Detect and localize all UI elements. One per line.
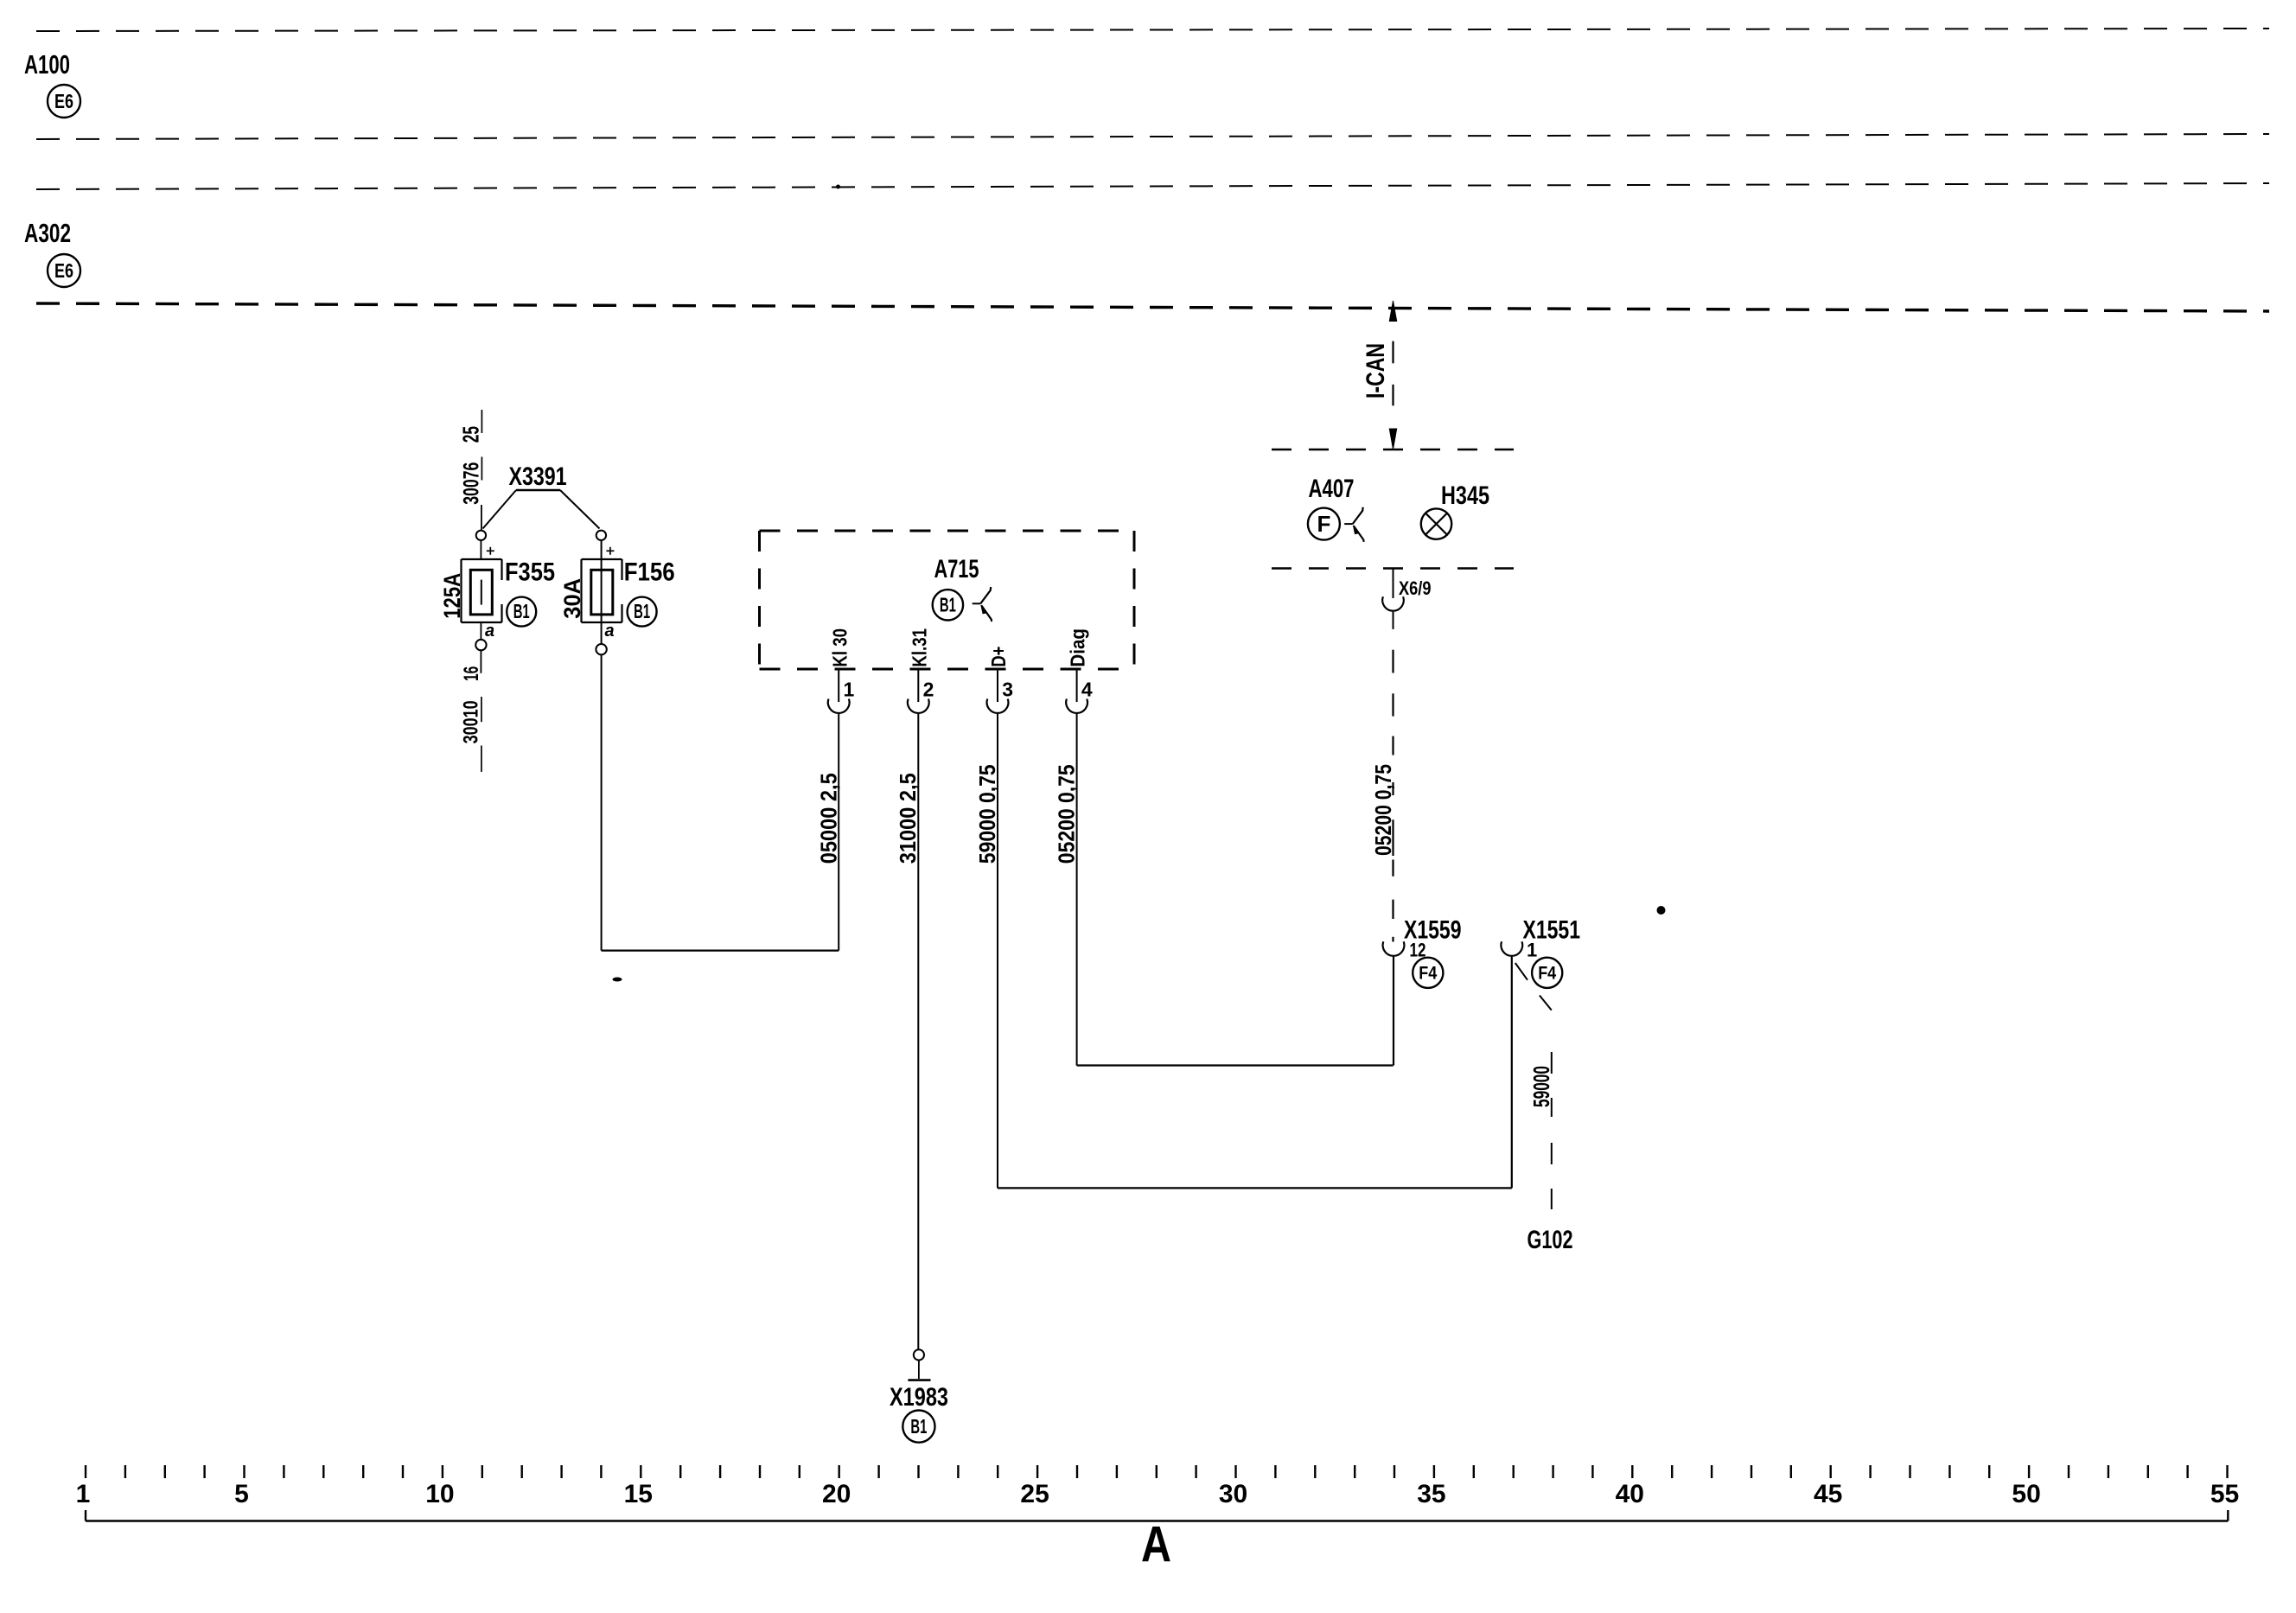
svg-text:31000 2,5: 31000 2,5 xyxy=(895,773,921,864)
svg-text:G102: G102 xyxy=(1527,1226,1573,1254)
wire pin3 D+ to X1551 xyxy=(998,1187,1512,1189)
A407 dashed box bottom xyxy=(1272,567,1514,570)
speck xyxy=(837,185,840,188)
wire 30010 xyxy=(480,650,482,673)
X1983 terminal circle xyxy=(914,1349,924,1360)
svg-text:X3391: X3391 xyxy=(509,462,567,491)
svg-text:H345: H345 xyxy=(1441,481,1489,510)
svg-text:X1983: X1983 xyxy=(890,1383,948,1412)
speck xyxy=(613,978,622,982)
A715 electronics symbol xyxy=(973,602,981,604)
svg-text:20: 20 xyxy=(822,1480,851,1508)
plus mark F156 xyxy=(606,550,614,551)
svg-text:1: 1 xyxy=(1527,940,1537,961)
svg-text:B1: B1 xyxy=(513,600,530,622)
svg-text:A100: A100 xyxy=(24,49,70,80)
svg-text:1: 1 xyxy=(76,1480,91,1508)
svg-text:25: 25 xyxy=(458,426,484,443)
svg-text:59000: 59000 xyxy=(1528,1066,1554,1107)
A407 location circle F xyxy=(1308,508,1340,540)
svg-text:05200 0,75: 05200 0,75 xyxy=(1370,764,1396,856)
svg-text:05200 0,75: 05200 0,75 xyxy=(1054,764,1080,864)
grid ruler ticks xyxy=(85,1465,86,1478)
svg-text:30A: 30A xyxy=(559,578,585,619)
control unit A715 dashed box xyxy=(760,530,1135,532)
svg-text:A715: A715 xyxy=(934,555,979,583)
svg-text:B1: B1 xyxy=(634,600,650,622)
svg-text:45: 45 xyxy=(1814,1480,1842,1508)
svg-text:A302: A302 xyxy=(24,218,71,248)
svg-text:A407: A407 xyxy=(1309,475,1355,503)
F156 location circle B1 xyxy=(628,597,657,627)
dashed wire 05200 X6/9 to X1559 xyxy=(1392,650,1394,673)
wire F355 to terminal circle xyxy=(480,622,482,640)
svg-text:15: 15 xyxy=(624,1480,653,1508)
wire X1559 down to pin4 run xyxy=(1393,956,1394,1066)
wire F156 to A715 pin1 xyxy=(602,949,839,951)
svg-text:16: 16 xyxy=(460,666,483,681)
F355 fuse body xyxy=(460,559,462,622)
A100 code circle E6 xyxy=(48,85,80,118)
svg-text:30076: 30076 xyxy=(460,462,484,505)
wire X3391 left to F355 xyxy=(480,540,482,559)
F355 location circle B1 xyxy=(507,597,536,627)
svg-text:30010: 30010 xyxy=(460,700,483,743)
svg-text:A: A xyxy=(1141,1517,1171,1573)
svg-text:1: 1 xyxy=(844,679,855,701)
svg-text:125A: 125A xyxy=(439,573,465,619)
dashed bus line 3 (A302 top) xyxy=(36,183,2269,189)
X1559 location circle F4 xyxy=(1413,958,1443,988)
svg-text:E6: E6 xyxy=(54,259,73,282)
svg-text:F156: F156 xyxy=(624,558,675,587)
svg-text:F: F xyxy=(1317,511,1330,537)
svg-text:F4: F4 xyxy=(1419,964,1437,984)
I-CAN bus arrow up xyxy=(1389,301,1396,322)
svg-text:35: 35 xyxy=(1417,1480,1445,1508)
svg-text:a: a xyxy=(605,622,615,641)
X1551 location circle F4 xyxy=(1532,958,1562,988)
svg-text:50: 50 xyxy=(2012,1480,2040,1508)
svg-text:25: 25 xyxy=(1020,1480,1049,1508)
A407 electronics symbol xyxy=(1344,523,1353,525)
svg-text:Kl.31: Kl.31 xyxy=(908,628,930,667)
svg-text:30: 30 xyxy=(1219,1480,1247,1508)
A407 dashed box top xyxy=(1272,449,1514,451)
svg-text:40: 40 xyxy=(1616,1480,1644,1508)
wire into X3391 left xyxy=(481,505,482,530)
svg-text:10: 10 xyxy=(425,1480,454,1508)
svg-text:2: 2 xyxy=(923,679,934,701)
X1983 end bar xyxy=(908,1379,930,1381)
svg-text:Diag: Diag xyxy=(1067,628,1089,667)
svg-text:X6/9: X6/9 xyxy=(1399,577,1432,599)
svg-text:05000 2,5: 05000 2,5 xyxy=(815,773,841,864)
F355 lower terminal circle xyxy=(475,640,486,650)
A302 code circle E6 xyxy=(48,254,80,287)
svg-text:E6: E6 xyxy=(54,90,73,112)
svg-text:5: 5 xyxy=(234,1480,249,1508)
svg-text:59000 0,75: 59000 0,75 xyxy=(974,764,1000,864)
svg-text:I-CAN: I-CAN xyxy=(1362,343,1390,398)
svg-text:B1: B1 xyxy=(940,594,956,616)
svg-text:3: 3 xyxy=(1002,679,1013,701)
grid bracket xyxy=(86,1520,2228,1521)
wire X3391 right through F156 xyxy=(601,540,603,644)
svg-text:4: 4 xyxy=(1081,679,1093,701)
A715 location circle B1 xyxy=(933,590,963,620)
connector X1559 pin 12 xyxy=(1383,941,1405,956)
connector X6/9 xyxy=(1393,569,1394,599)
wire F156 down xyxy=(601,654,603,950)
wire 30076 to terminal 25 (off-page) xyxy=(481,410,482,433)
speck xyxy=(1657,907,1665,915)
wire pin4 Diag to X1559 xyxy=(1077,1064,1394,1066)
svg-text:55: 55 xyxy=(2210,1480,2239,1508)
F156 fuse body xyxy=(580,559,582,622)
plus mark F355 xyxy=(487,550,494,551)
svg-text:a: a xyxy=(485,622,494,641)
X1983 location circle B1 xyxy=(902,1411,934,1443)
X3391 terminal circle right xyxy=(596,531,606,540)
dashed bus line 1 (A100 top) xyxy=(36,29,2269,31)
I-CAN dashed wire xyxy=(1392,341,1394,364)
svg-text:F355: F355 xyxy=(505,558,555,587)
svg-text:D+: D+ xyxy=(987,647,1010,667)
svg-text:F4: F4 xyxy=(1538,964,1556,984)
dashed wire 59000 X1551 to G102 xyxy=(1515,963,1527,980)
dashed bus line 2 (A100 bottom) xyxy=(36,134,2269,139)
lamp H345 symbol xyxy=(1421,508,1451,539)
connector X1551 pin 1 xyxy=(1501,941,1522,956)
F156 lower terminal circle xyxy=(596,644,606,654)
svg-text:Kl 30: Kl 30 xyxy=(828,628,851,667)
dashed bus line 4 (A302 bottom, bold) xyxy=(36,303,2269,311)
wire X1551 down to pin3 run xyxy=(1511,956,1513,1189)
X3391 terminal circle left xyxy=(476,531,486,540)
I-CAN bus arrow down xyxy=(1389,429,1396,449)
svg-text:B1: B1 xyxy=(910,1415,927,1438)
